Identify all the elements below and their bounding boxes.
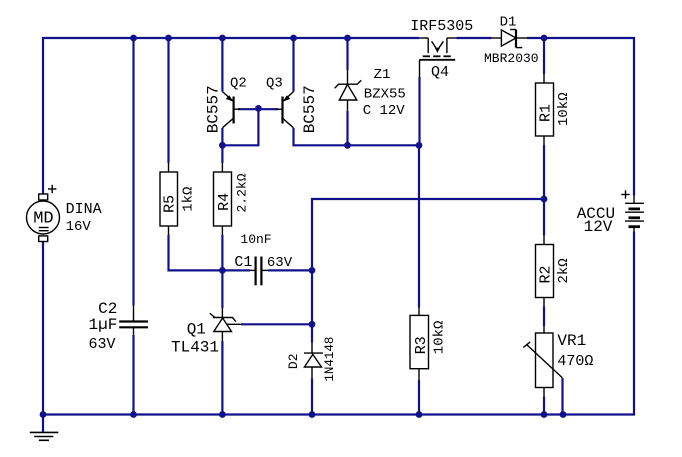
svg-text:VR1: VR1 <box>557 332 586 350</box>
node C1 right <box>309 267 316 274</box>
svg-text:Q3: Q3 <box>266 75 283 91</box>
svg-text:2kΩ: 2kΩ <box>556 258 572 283</box>
svg-text:Z1: Z1 <box>374 67 391 83</box>
mosfet Q4 IRF5305 <box>419 38 456 77</box>
wire gate node to R3 <box>418 145 420 307</box>
wire VR1 wiper to rail <box>561 378 563 415</box>
diode D1 MBR2030 <box>492 30 527 48</box>
resistor R3 <box>410 308 448 381</box>
wire R5 top <box>167 38 169 163</box>
svg-text:Q4: Q4 <box>431 64 449 81</box>
battery ACCU <box>621 190 644 231</box>
wire top rail left segment <box>43 38 419 194</box>
wire R4 bottom to C1 node <box>221 235 223 308</box>
svg-text:16V: 16V <box>66 219 92 235</box>
svg-text:BC557: BC557 <box>301 85 319 133</box>
wire Z1 bottom <box>346 111 348 146</box>
zener Z1 <box>335 70 362 111</box>
wire C2 branch lower <box>132 335 134 415</box>
node base of Q2 Q3 <box>255 105 262 112</box>
svg-text:470Ω: 470Ω <box>557 353 593 370</box>
wire D2 bottom <box>311 379 313 415</box>
wire Z1 top <box>346 38 348 70</box>
svg-text:10nF: 10nF <box>240 232 271 247</box>
svg-text:D2: D2 <box>286 353 301 369</box>
wire ref horizontal blue <box>241 323 312 325</box>
wire R3 bottom <box>418 380 420 415</box>
svg-text:MBR2030: MBR2030 <box>484 51 539 66</box>
node divider R1 R2 <box>541 196 548 203</box>
svg-text:BZX55: BZX55 <box>364 87 406 103</box>
svg-text:63V: 63V <box>89 336 116 353</box>
wire R2 bottom to VR1 <box>543 307 545 327</box>
svg-text:R4: R4 <box>216 193 233 211</box>
svg-text:10kΩ: 10kΩ <box>556 92 572 126</box>
capacitor C2 <box>119 306 148 335</box>
wire battery bottom to rail corner <box>563 232 634 415</box>
wire top rail between Q4 and D1 <box>456 37 491 39</box>
svg-text:IRF5305: IRF5305 <box>410 18 473 35</box>
node rail VR1 bottom <box>541 411 548 418</box>
wire Q2 emitter drop <box>221 38 223 92</box>
wire C1 left lead blue <box>222 269 250 271</box>
ground <box>30 432 59 440</box>
svg-text:10kΩ: 10kΩ <box>432 321 448 355</box>
svg-text:1kΩ: 1kΩ <box>181 187 197 212</box>
node top rail at Q3 <box>290 35 297 42</box>
wire base Q2-Q3 <box>238 108 278 110</box>
svg-text:R5: R5 <box>162 195 179 213</box>
node Q2 collector / R4 <box>219 142 226 149</box>
capacitor C1 <box>250 257 268 286</box>
wire R1 top <box>543 38 545 74</box>
svg-text:MD: MD <box>33 210 53 229</box>
wire feedback horizontal <box>312 199 544 270</box>
wire ref node down to D2 <box>311 270 313 343</box>
wire C2 branch upper <box>132 38 134 306</box>
node top rail at R5 <box>165 35 172 42</box>
wire VR1 bottom to rail <box>543 397 545 415</box>
trimmer VR1 <box>523 326 562 397</box>
diode D2 1N4148 <box>304 343 323 379</box>
svg-text:R2: R2 <box>538 265 555 283</box>
node top rail at R1/D1 <box>541 35 548 42</box>
svg-text:DINA: DINA <box>66 201 102 218</box>
shunt regulator Q1 TL431 <box>210 308 241 341</box>
node C1 left <box>219 267 226 274</box>
node rail VR1 wiper <box>560 411 567 418</box>
svg-text:D1: D1 <box>500 14 517 30</box>
svg-text:TL431: TL431 <box>171 338 219 356</box>
wire R5 bottom to C1 node <box>169 235 223 270</box>
node top rail at Q2 <box>219 35 226 42</box>
wire Q3 collector to gate node <box>294 128 420 145</box>
resistor R2 <box>536 236 573 307</box>
wire top rail D1 to right corner and down to battery <box>527 38 634 196</box>
wire Q1 anode to rail <box>221 341 223 415</box>
wire R1 bottom to divider node <box>543 145 545 199</box>
node rail Q1 bottom <box>219 411 226 418</box>
resistor R4 <box>214 163 250 235</box>
node Z1 bottom <box>344 142 351 149</box>
resistor R5 <box>160 163 197 235</box>
resistor R1 <box>536 74 573 145</box>
wire node A to base node <box>222 108 258 145</box>
node rail C2 bottom <box>130 411 137 418</box>
node rail D2 bottom <box>309 411 316 418</box>
node rail R3 bottom <box>416 411 423 418</box>
wire bottom rail <box>43 413 563 415</box>
svg-text:BC557: BC557 <box>205 85 223 133</box>
wire motor bottom to rail <box>42 242 44 415</box>
svg-text:Q2: Q2 <box>230 75 247 91</box>
svg-text:R3: R3 <box>413 336 430 354</box>
svg-text:2.2kΩ: 2.2kΩ <box>235 173 250 212</box>
svg-text:R1: R1 <box>538 104 555 122</box>
svg-text:Q1: Q1 <box>187 320 206 338</box>
wire ground stub <box>42 415 44 433</box>
wire Q3 emitter drop <box>292 38 294 92</box>
node top rail at C2 <box>130 35 137 42</box>
svg-text:12V: 12V <box>584 218 613 236</box>
motor MD DINA <box>27 185 60 242</box>
wire Q4 gate down <box>418 77 420 145</box>
svg-text:C1: C1 <box>234 254 252 271</box>
wire Q2 collector to R4 <box>221 128 223 163</box>
svg-text:1N4148: 1N4148 <box>323 337 337 382</box>
node gate / R3 <box>416 142 423 149</box>
node ground corner <box>40 411 47 418</box>
wire C1 right lead blue <box>268 269 312 271</box>
svg-text:C 12V: C 12V <box>363 103 406 119</box>
wire divider node to R2 <box>543 199 545 236</box>
svg-text:63V: 63V <box>267 255 293 271</box>
node ref / D2 <box>309 321 316 328</box>
node top rail at Z1 <box>344 35 351 42</box>
transistor Q2 BC557 <box>222 92 240 128</box>
transistor Q3 BC557 <box>276 92 294 128</box>
svg-text:1µF: 1µF <box>89 316 118 334</box>
